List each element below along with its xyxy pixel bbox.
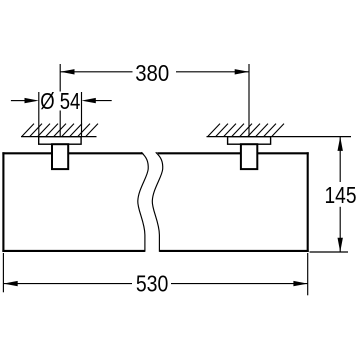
dim O54: extension lines xyxy=(11,92,112,137)
wall hatching left xyxy=(22,124,98,137)
left mount flange xyxy=(39,137,81,145)
dim 145: line xyxy=(310,137,349,252)
svg-text:145: 145 xyxy=(325,182,357,208)
break curve left xyxy=(138,152,148,252)
wall line left xyxy=(21,136,97,138)
dim 145: bottom extension xyxy=(310,251,349,253)
dim 530: extension lines xyxy=(3,253,307,295)
dim O54: tails xyxy=(11,100,26,102)
dim 530: line xyxy=(3,283,132,285)
dim 380: left tick / centerline xyxy=(60,64,249,137)
svg-text:380: 380 xyxy=(135,60,169,86)
break band (white gap between break curves) xyxy=(138,151,163,253)
svg-text:530: 530 xyxy=(136,271,169,297)
dim 380: right tick / centerline xyxy=(248,64,250,137)
shelf outline xyxy=(2,152,308,252)
break curve right xyxy=(152,152,162,252)
dim 145: arrows xyxy=(338,137,343,151)
right mount stem xyxy=(241,144,257,169)
wall hatching right xyxy=(208,124,284,137)
dim 530: arrows xyxy=(3,281,17,286)
left mount stem xyxy=(52,144,68,169)
dim 380: arrows xyxy=(60,69,74,74)
svg-text:Ø 54: Ø 54 xyxy=(40,88,80,114)
wall line right (extends right as extension line for 145) xyxy=(207,136,352,138)
dim O54: arrows xyxy=(25,98,39,103)
dim 380: line xyxy=(60,71,132,73)
right mount flange xyxy=(228,137,271,145)
